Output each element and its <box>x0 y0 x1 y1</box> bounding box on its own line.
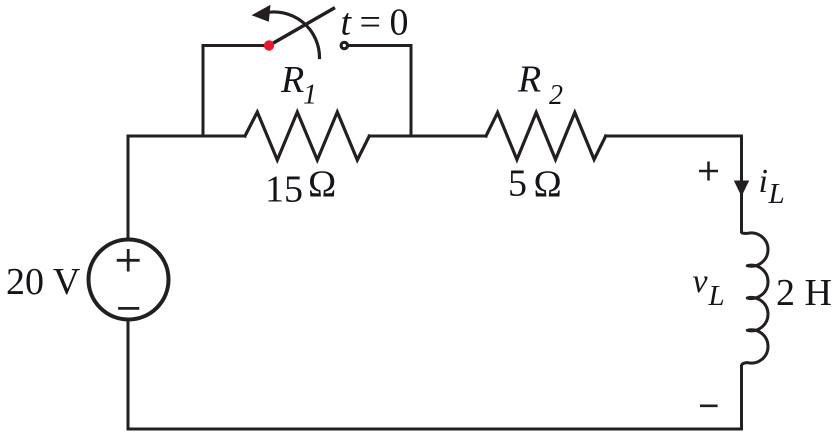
plus sign inside source <box>118 250 138 270</box>
svg-text:5: 5 <box>508 163 527 205</box>
wire top with resistors R1 and R2 <box>128 112 742 160</box>
resistor R1 <box>245 112 369 160</box>
inductor current arrowhead iL <box>734 181 749 197</box>
svg-text:R: R <box>517 59 541 101</box>
switch closed contact (red dot) <box>264 40 274 50</box>
wire bottom <box>128 428 742 431</box>
wire left vertical below source <box>127 320 130 430</box>
svg-text:v: v <box>693 263 709 300</box>
switch motion arc <box>264 12 320 58</box>
switch arc arrowhead <box>252 5 271 22</box>
svg-text:R: R <box>280 59 304 101</box>
svg-text:i: i <box>759 163 768 200</box>
svg-text:L: L <box>768 178 785 210</box>
label minus polarity at inductor bottom <box>700 404 718 407</box>
wire left vertical above source <box>127 136 130 240</box>
svg-text:Ω: Ω <box>308 164 336 206</box>
minus sign inside source <box>120 307 138 310</box>
svg-text:20 V: 20 V <box>6 261 81 303</box>
svg-text:1: 1 <box>303 80 317 111</box>
svg-text:Ω: Ω <box>534 164 562 206</box>
wire R2 to right corner <box>606 135 742 138</box>
svg-text:t=0: t=0 <box>341 2 409 44</box>
wire right vertical above inductor <box>740 136 743 232</box>
voltage source V1 circle <box>89 240 169 320</box>
inductor L1 (2 H) <box>742 136 768 429</box>
wire between R1 and R2 <box>369 135 486 138</box>
svg-text:2: 2 <box>549 80 563 111</box>
wire switch branch right side <box>349 46 412 137</box>
wire switch branch left riser <box>203 46 265 137</box>
svg-text:2 H: 2 H <box>776 272 832 314</box>
switch blade <box>269 9 334 46</box>
svg-text:15: 15 <box>265 169 303 211</box>
svg-text:L: L <box>708 280 725 312</box>
label plus polarity at inductor top <box>699 162 718 181</box>
switch open terminal <box>341 42 347 48</box>
wire top-left segment <box>128 135 245 138</box>
resistor R2 <box>486 113 606 160</box>
